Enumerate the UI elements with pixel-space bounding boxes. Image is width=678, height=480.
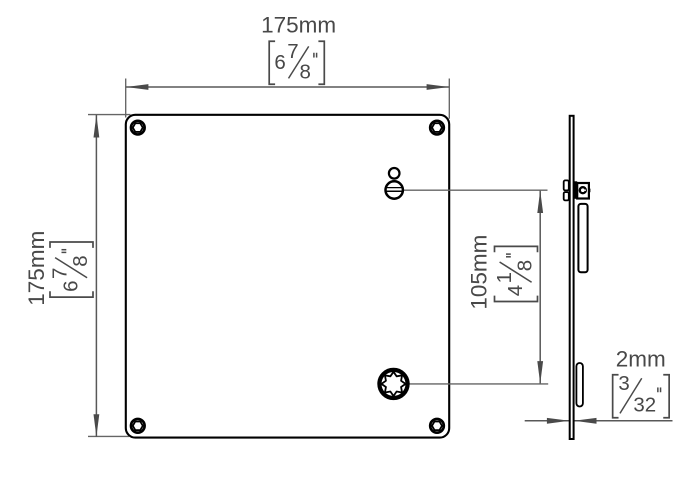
keyhole screw head [385, 181, 404, 198]
svg-text:32: 32 [633, 394, 656, 417]
hex screw top-right [430, 121, 444, 135]
side view plate [570, 116, 574, 439]
105 dimension line [539, 190, 541, 383]
2mm dim left arrow [547, 418, 570, 424]
svg-text:8: 8 [300, 60, 311, 83]
svg-text:6: 6 [274, 51, 285, 74]
left dim top arrow [94, 115, 100, 138]
top dimension line [126, 86, 450, 88]
svg-text:175mm: 175mm [24, 231, 49, 306]
keyhole screw slot circle [389, 168, 400, 179]
svg-text:8: 8 [514, 260, 537, 271]
top dim right extension line [448, 79, 450, 119]
side view rail [578, 204, 587, 272]
svg-text:105mm: 105mm [467, 235, 492, 310]
left dimension line [95, 115, 97, 437]
plate front view [126, 115, 449, 438]
side view clip lower [564, 192, 569, 200]
top dim right arrow [427, 84, 450, 90]
side view spacer [574, 181, 577, 199]
top dim left extension line [125, 79, 127, 118]
hex screw bottom-right [430, 419, 444, 433]
105 dim top extension line [404, 189, 548, 191]
2mm dim line right segment [574, 420, 672, 422]
2mm dim text 2mm [616, 347, 666, 372]
2mm dim right arrow [574, 418, 597, 424]
svg-text:8: 8 [69, 255, 92, 266]
left dim top extension line [88, 114, 131, 116]
top dim left arrow [126, 84, 148, 90]
svg-text:1: 1 [493, 272, 516, 283]
top dim bracket [6 7/8"] [269, 40, 324, 84]
105 dim bottom extension line [401, 383, 548, 385]
105 dim text 105mm [467, 235, 492, 310]
105 dim bracket [4 1/8"] [493, 246, 537, 301]
top dim text 175mm [261, 13, 336, 38]
left dim bracket [6 7/8"] [49, 242, 93, 297]
left dim bottom arrow [94, 414, 100, 437]
torx screw [379, 370, 408, 399]
svg-text:4: 4 [504, 285, 527, 296]
side view screw block [577, 183, 590, 199]
svg-text:3: 3 [618, 372, 629, 395]
svg-text:2mm: 2mm [616, 347, 666, 372]
side view clip upper [564, 180, 569, 190]
105 dim top arrow [537, 191, 543, 214]
side view bottom tab [576, 363, 583, 407]
2mm dim line left segment [525, 420, 570, 422]
svg-text:7: 7 [287, 40, 298, 63]
svg-text:175mm: 175mm [261, 13, 336, 38]
svg-text:7: 7 [49, 268, 72, 279]
hex screw bottom-left [131, 419, 145, 433]
svg-text:6: 6 [60, 280, 83, 291]
hex screw top-left [131, 121, 145, 135]
2mm dim bracket [3/32"] [613, 372, 670, 418]
left dim bottom extension line [88, 435, 129, 437]
left dim text 175mm [24, 231, 49, 306]
105 dim bottom arrow [537, 361, 543, 384]
